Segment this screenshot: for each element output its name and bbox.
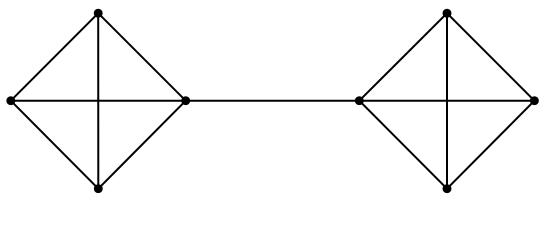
wire edge B-D (left K4: left to bottom) (11, 101, 99, 189)
wire edge G-H (right K4: right to bottom) (447, 101, 534, 189)
node H (right K4 bottom vertex) (443, 184, 452, 193)
node G (right K4 right vertex) (530, 96, 539, 105)
wire edge A-B (left K4: top to left) (11, 13, 98, 101)
node E (right K4 left vertex) (355, 96, 364, 105)
wire edge E-H (right K4: left to bottom) (359, 101, 447, 189)
wire edge A-D (left K4: top to bottom, vertical diagonal) (97, 13, 99, 189)
node A (left K4 top vertex) (94, 9, 103, 18)
node C (left K4 right vertex) (181, 96, 190, 105)
node B (left K4 left vertex) (6, 96, 15, 105)
wire edge C-D (left K4: right to bottom) (98, 101, 185, 189)
wire edge A-C (left K4: top to right) (98, 13, 186, 101)
wire edge F-G (right K4: top to right) (447, 13, 534, 101)
node D (left K4 bottom vertex) (94, 184, 103, 193)
wire edge B-C (left K4: left to right, horizontal diagonal) (11, 100, 186, 102)
wire edge F-H (right K4: top to bottom, vertical diagonal) (446, 13, 448, 189)
wire edge E-G (right K4: left to right, horizontal diagonal) (359, 100, 534, 102)
node F (right K4 top vertex) (443, 9, 452, 18)
wire edge C-E (bridge connecting the two K4 subgraphs) (186, 100, 360, 102)
wire edge E-F (right K4: left to top) (359, 13, 447, 101)
